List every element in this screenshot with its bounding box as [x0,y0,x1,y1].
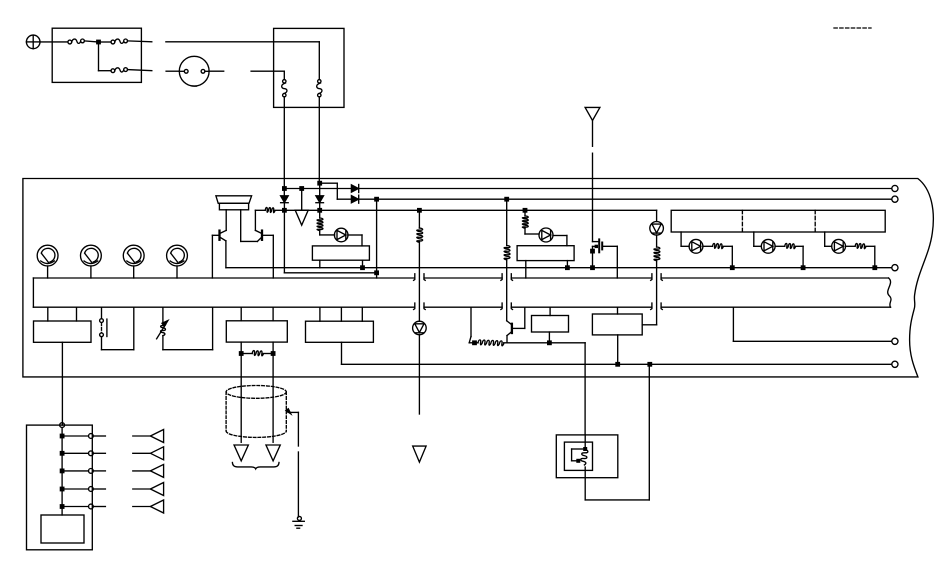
arrow [286,409,291,414]
fuse F1 [68,40,72,44]
wire [584,343,586,435]
dashed line [834,27,871,29]
wire [272,342,274,353]
opto U5 [689,239,703,253]
wire [163,349,213,351]
switch S1 [101,307,103,319]
wire net E [226,267,892,269]
wire [418,241,420,321]
wire [240,307,242,321]
open arrow [266,445,280,461]
wire [133,506,151,508]
node [374,197,379,202]
wire hop [501,274,502,281]
diode D3 [281,196,289,203]
indicator M3 [123,245,144,266]
pin [892,265,898,271]
wire [47,307,49,321]
wire [93,435,105,437]
wire [795,245,803,247]
node [523,208,528,213]
wire [128,40,152,43]
wire [98,42,100,71]
node [615,362,620,367]
wire [553,235,567,237]
relay box K4 [592,314,642,335]
wire [469,342,478,344]
wire [133,266,135,278]
resistor R4 [522,216,528,228]
fuse F3 [111,69,115,73]
wire [93,488,105,490]
opto U2 [413,321,427,335]
wire net G [733,340,891,342]
wire [240,342,242,353]
wire [283,97,285,196]
wire [319,230,321,235]
resistor R10 [252,351,263,356]
jack [318,80,321,83]
indicator M2 [81,245,102,266]
pin [89,469,94,474]
wire [284,272,376,274]
wire [240,354,242,443]
opto U3 [539,228,553,242]
pin [89,434,94,439]
open arrow [150,430,163,443]
wire [703,245,713,247]
indicator M1 [37,245,58,266]
open arrow [234,445,248,461]
wire [732,307,734,341]
wire [166,70,179,72]
bus bottom edge [33,306,414,308]
wire [320,182,338,184]
open arrow [150,500,163,513]
wire [272,307,274,321]
sensor drum [226,386,286,399]
driver A3 [517,246,574,261]
wire net A [284,188,891,190]
node [576,459,580,463]
wire [61,342,63,425]
wire [524,307,526,328]
wire hop [501,303,502,310]
opto U1 [334,228,348,242]
wire [93,506,105,508]
pin [892,196,898,202]
node [239,351,244,356]
node [60,504,65,509]
wire [301,189,303,211]
wire [470,307,472,336]
wire [133,452,151,454]
wire [90,266,92,278]
wire [241,353,252,355]
wire [102,349,134,351]
antenna A1 [585,107,600,120]
wire [318,97,320,183]
resistor R2 [317,218,323,231]
wire [93,452,105,454]
wire [319,183,321,196]
brace [232,463,279,469]
node [801,265,806,270]
wire [341,342,343,364]
mosfet Q4 [593,241,600,243]
resistor R5 [504,246,510,260]
wire net C [284,209,656,211]
wire [319,210,321,218]
wire hop [651,274,652,281]
node [583,447,587,451]
wire [680,232,682,246]
node [417,208,422,213]
sensor housing [556,435,618,478]
wire [76,307,78,321]
wire [584,435,586,449]
pin [89,487,94,492]
diode D4 [316,196,324,203]
module box A4 [41,515,84,543]
opto U6 [761,239,775,253]
node [60,434,65,439]
wire [128,70,152,71]
pin [89,504,94,509]
wire [584,467,586,500]
wire [723,245,732,247]
wire [255,209,265,211]
ctrl box K1 [34,321,92,342]
wire [617,307,619,314]
node [590,265,595,270]
wire [40,41,68,43]
wire [62,488,88,490]
wire [348,234,362,236]
open arrow [295,210,308,225]
wire [418,335,420,414]
open arrow [150,447,163,460]
node [360,265,365,270]
wire [93,470,105,472]
bus torn right end [888,278,891,307]
wire [846,245,856,247]
node [317,208,322,213]
bus top edge [33,277,414,279]
resistor R9 [855,243,866,248]
pin [892,338,898,344]
wire [61,428,63,516]
wire [319,260,321,268]
variable resistor RV1 [162,307,164,323]
wire [318,42,320,80]
wire [133,488,151,490]
wire [572,448,586,450]
transistor Q3 [511,324,513,333]
wire [275,209,285,211]
wire [62,470,88,472]
node [60,469,65,474]
wire [506,199,508,245]
wire [99,41,112,43]
wire [506,336,508,343]
wire [525,261,527,278]
pin [60,423,65,428]
wire [62,435,88,437]
wire [319,307,321,321]
wire [548,332,550,343]
wire hop [414,303,415,310]
node [730,265,735,270]
wire [272,354,274,443]
wire [176,266,178,278]
node [472,340,477,345]
resistor R8 [785,243,796,248]
connector box J2 [274,28,344,107]
resistor R11 [478,340,504,346]
wire [62,506,88,508]
wire [62,452,88,454]
resistor R1 [265,207,275,212]
wire [504,342,585,344]
wire [133,435,151,437]
ground [297,516,301,520]
wire [824,232,826,246]
node [60,487,65,492]
wire [585,499,649,501]
node [872,265,877,270]
open arrow [150,483,163,496]
bus left end [32,278,34,307]
wire [362,260,364,268]
wire [272,235,274,278]
wire [240,210,242,242]
diode D1 [351,185,358,192]
wire [418,210,420,228]
divider [814,210,816,232]
output module box [671,210,885,232]
wire [340,307,342,321]
wire [656,260,658,325]
fuse box FL1 [52,28,141,82]
jack [283,80,286,83]
pin [89,451,94,456]
wire [524,210,526,216]
wire hop [651,303,652,310]
relay box K3 [532,316,569,333]
wire [251,70,284,72]
node [271,351,276,356]
wire [656,210,658,221]
connector block X1 [27,425,93,550]
wire [283,203,285,273]
wire [376,199,378,278]
open arrow [413,446,426,462]
indicator M4 [167,245,188,266]
node [317,181,322,186]
node [60,451,65,456]
wire [225,241,227,268]
node [282,186,287,191]
wire [775,245,785,247]
wire [209,70,224,72]
connector J1 [179,56,209,86]
node [374,270,379,275]
wire [549,307,551,315]
transistor Q1 [218,231,220,240]
divider [741,210,743,232]
wire [166,41,319,43]
wire [866,245,875,247]
node [504,197,509,202]
main unit box [23,179,933,377]
diode D2 [351,196,358,203]
wire [47,266,49,278]
power plug P1 [26,35,40,49]
resistor R7 [713,243,724,248]
wire [225,210,227,231]
pin [892,361,898,367]
resistor R3 [417,228,423,242]
wire net F [342,363,892,365]
wire net B [337,198,892,200]
wire [84,41,98,42]
node [96,40,101,45]
wire [133,470,151,472]
node [565,265,570,270]
node [547,340,552,345]
node [282,208,287,213]
wire [642,324,656,326]
driver A2 [312,246,369,260]
xfmr box T1 [226,321,287,342]
node [647,362,652,367]
wire hop [414,274,415,281]
wire [297,412,299,446]
sensor inner box [564,442,592,470]
wire [753,232,755,246]
wire [566,261,568,268]
fuse F2 [111,40,115,44]
wire [241,240,258,242]
pin [892,185,898,191]
opto U4 [650,222,664,236]
horn speaker LS1 [216,196,252,204]
node [299,186,304,191]
wire [656,235,658,247]
wire [524,227,526,234]
open arrow [150,464,163,477]
wire [361,307,363,321]
resistor R6 [654,247,660,261]
wire [211,235,213,278]
wire [617,335,619,364]
wire [506,259,508,321]
opto U7 [832,239,846,253]
logic box K2 [306,321,374,342]
wire [263,353,273,355]
transistor Q2 [261,231,263,240]
coil [581,450,588,465]
